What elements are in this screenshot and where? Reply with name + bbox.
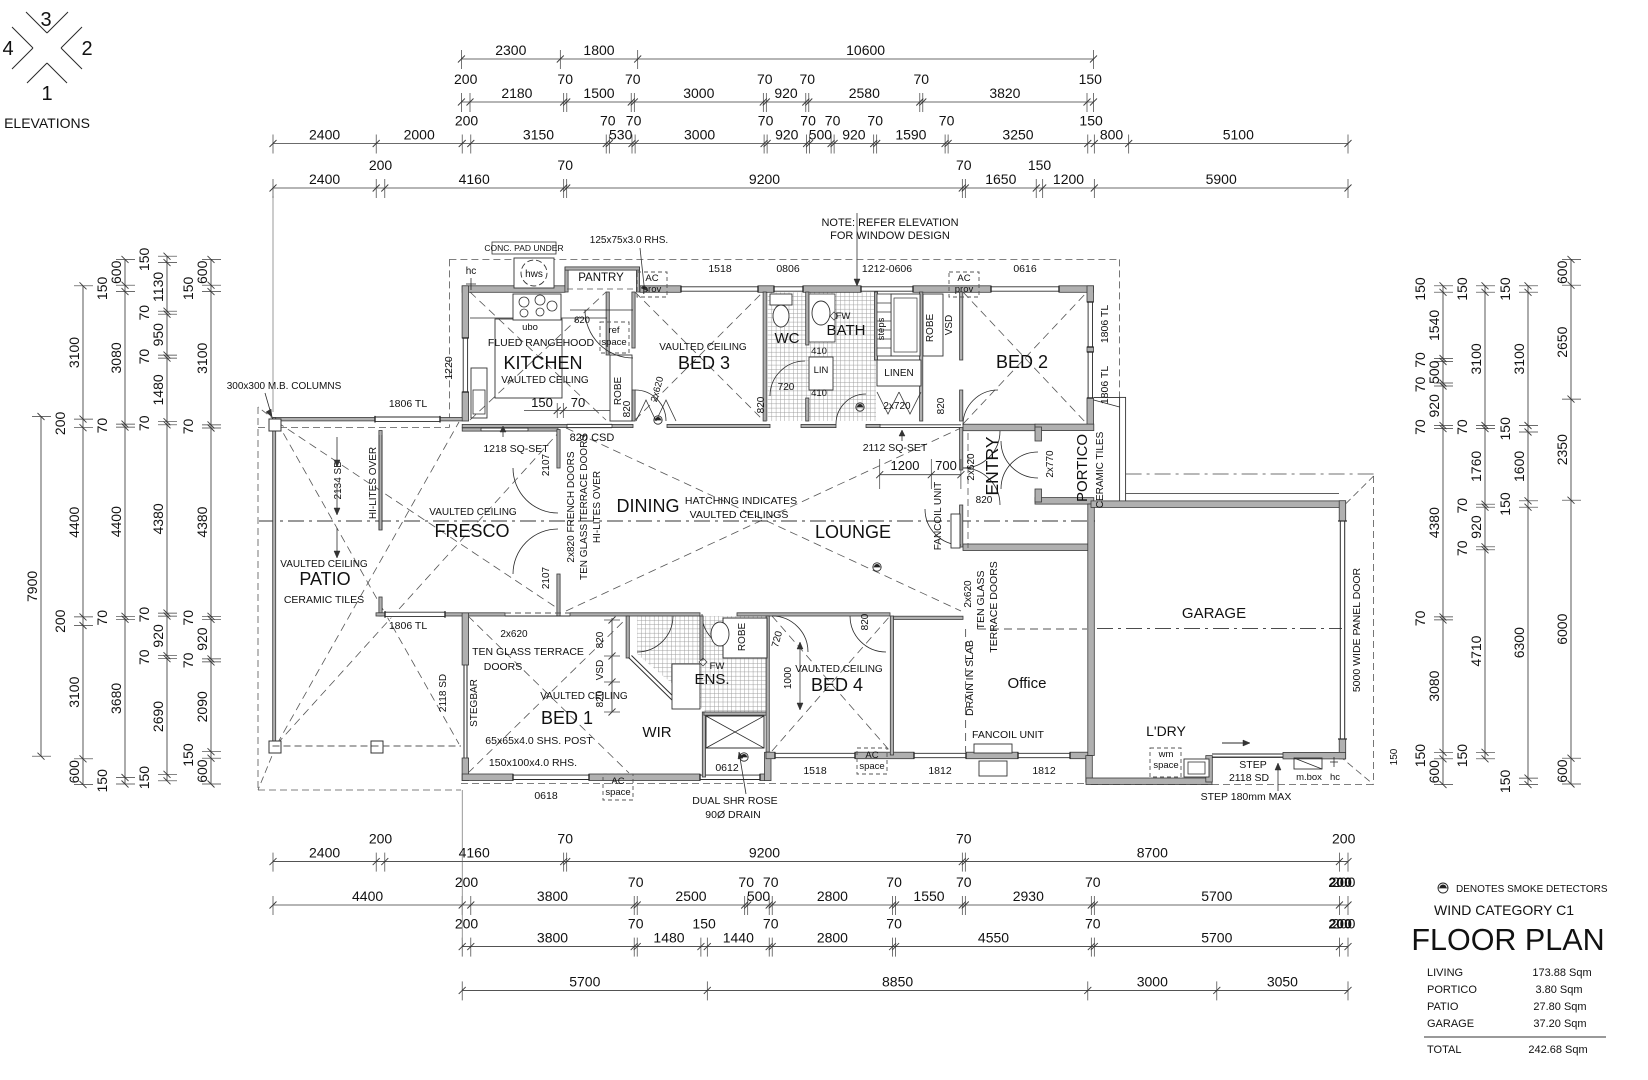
hi-lite window divider	[378, 435, 380, 530]
svg-text:4160: 4160	[459, 171, 490, 187]
vault X kitchen	[470, 292, 606, 420]
eave dashed outline left	[257, 407, 259, 790]
window 1812 bottom 1	[914, 752, 966, 759]
svg-text:1806 TL: 1806 TL	[1099, 366, 1111, 404]
entry opening dashed line	[967, 433, 969, 548]
window 0618	[513, 774, 589, 781]
svg-text:70: 70	[94, 610, 110, 626]
window 1806TL right 1	[1087, 302, 1094, 347]
svg-text:TEN GLASS: TEN GLASS	[975, 571, 987, 630]
svg-text:70: 70	[136, 607, 152, 623]
svg-text:200: 200	[369, 831, 393, 847]
svg-text:L'DRY: L'DRY	[1146, 723, 1186, 739]
right dim chain 1	[1412, 277, 1453, 788]
svg-text:FOR WINDOW DESIGN: FOR WINDOW DESIGN	[830, 230, 950, 242]
svg-text:FANCOIL UNIT: FANCOIL UNIT	[933, 482, 944, 551]
svg-text:VAULTED CEILING: VAULTED CEILING	[795, 664, 883, 675]
svg-text:2800: 2800	[817, 888, 848, 904]
svg-text:500: 500	[747, 888, 771, 904]
section line main	[259, 520, 1097, 522]
svg-text:70: 70	[557, 71, 573, 87]
svg-text:600: 600	[108, 260, 124, 284]
svg-text:PORTICO: PORTICO	[1427, 984, 1477, 996]
svg-text:STEP: STEP	[1239, 759, 1266, 771]
svg-text:TEN GLASS TERRACE DOORS: TEN GLASS TERRACE DOORS	[579, 434, 590, 580]
svg-text:HATCHING INDICATES: HATCHING INDICATES	[685, 495, 797, 507]
svg-text:GARAGE: GARAGE	[1182, 605, 1246, 622]
svg-text:6000: 6000	[1554, 613, 1570, 644]
svg-text:720: 720	[778, 382, 795, 393]
svg-text:200: 200	[1332, 831, 1356, 847]
svg-text:70: 70	[939, 113, 955, 129]
svg-text:1806 TL: 1806 TL	[389, 620, 427, 632]
lin closet	[809, 357, 833, 390]
svg-text:BATH: BATH	[827, 322, 866, 339]
svg-text:150: 150	[94, 769, 110, 793]
eave hip diagonal patio bottom-left	[258, 746, 276, 790]
wall top exterior seg2	[640, 286, 681, 293]
svg-text:70: 70	[956, 831, 972, 847]
svg-text:920: 920	[150, 624, 166, 648]
svg-text:65x65x4.0 SHS. POST: 65x65x4.0 SHS. POST	[485, 735, 593, 747]
wall top exterior seg4	[803, 286, 861, 293]
wc door arc	[770, 361, 805, 396]
svg-text:70: 70	[1412, 419, 1428, 435]
svg-text:70: 70	[136, 349, 152, 365]
svg-text:3680: 3680	[108, 683, 124, 714]
svg-text:2930: 2930	[1013, 888, 1044, 904]
svg-text:hws: hws	[525, 269, 543, 280]
left dim chain 4	[180, 256, 221, 788]
right dim chain 4	[1554, 256, 1581, 788]
svg-text:2134 SD: 2134 SD	[333, 461, 344, 500]
bed1 mini vdim 820-vsd-820	[611, 618, 613, 712]
wall top exterior seg6	[1059, 286, 1094, 293]
svg-text:820 CSD: 820 CSD	[570, 432, 615, 444]
svg-text:2690: 2690	[150, 701, 166, 732]
svg-text:3100: 3100	[194, 343, 210, 374]
svg-text:70: 70	[628, 916, 644, 932]
svg-text:2: 2	[81, 38, 92, 60]
svg-text:hc: hc	[1330, 772, 1340, 783]
svg-text:1590: 1590	[895, 127, 926, 143]
wall ens/bed4	[766, 616, 769, 752]
svg-text:9200: 9200	[749, 845, 780, 861]
svg-text:920: 920	[194, 627, 210, 651]
m.box	[1294, 758, 1322, 769]
fancoil office	[974, 744, 1012, 753]
svg-text:VAULTED CEILING: VAULTED CEILING	[280, 559, 368, 570]
eave hip diagonal garage bottom-right	[1339, 756, 1374, 785]
wall step bed1/bed4	[765, 752, 772, 780]
svg-text:150: 150	[136, 248, 152, 272]
svg-text:AC: AC	[957, 273, 970, 284]
svg-text:410: 410	[811, 346, 827, 357]
svg-text:3100: 3100	[66, 337, 82, 368]
svg-text:70: 70	[1454, 419, 1470, 435]
svg-text:WIR: WIR	[642, 724, 671, 741]
svg-text:150: 150	[1028, 157, 1052, 173]
wm space dashed box	[1150, 748, 1181, 777]
svg-text:200: 200	[369, 157, 393, 173]
kitchen bench line	[470, 317, 607, 319]
svg-text:70: 70	[1454, 498, 1470, 514]
svg-text:150: 150	[180, 277, 196, 301]
svg-text:200: 200	[455, 113, 479, 129]
svg-text:37.20 Sqm: 37.20 Sqm	[1533, 1018, 1586, 1030]
svg-text:200: 200	[1329, 916, 1353, 932]
svg-text:HI-LITES OVER: HI-LITES OVER	[368, 447, 379, 519]
wall bed1/wir	[626, 616, 629, 658]
laundry walls	[1086, 756, 1093, 782]
svg-text:70: 70	[136, 649, 152, 665]
laundry tub	[1184, 759, 1209, 777]
svg-text:DOORS: DOORS	[484, 661, 523, 673]
svg-text:920: 920	[774, 85, 798, 101]
svg-text:GARAGE: GARAGE	[1427, 1018, 1474, 1030]
svg-text:4380: 4380	[150, 503, 166, 534]
window 1812 bottom 2	[1018, 752, 1070, 759]
wall top exterior seg1	[462, 286, 565, 293]
svg-text:NOTE: REFER ELEVATION: NOTE: REFER ELEVATION	[821, 217, 958, 229]
window 1806TL right 2	[1087, 352, 1094, 398]
vault X bed1	[468, 616, 629, 773]
top dim row 3	[270, 113, 1352, 154]
bed1 terrace doors dashed	[505, 612, 570, 614]
svg-text:920: 920	[775, 127, 799, 143]
bath vanity counter	[809, 294, 835, 342]
svg-text:700: 700	[935, 458, 957, 473]
garage bottom wall	[1283, 752, 1346, 759]
svg-text:920: 920	[1426, 394, 1442, 418]
entry south wall	[894, 616, 963, 619]
svg-text:ELEVATIONS: ELEVATIONS	[4, 115, 90, 131]
svg-text:500: 500	[1426, 360, 1442, 384]
svg-text:70: 70	[626, 113, 642, 129]
svg-text:VAULTED CEILING: VAULTED CEILING	[540, 691, 628, 702]
svg-text:820: 820	[860, 613, 871, 630]
svg-text:200: 200	[454, 71, 478, 87]
AC space boxes	[603, 774, 633, 800]
svg-text:1760: 1760	[1468, 451, 1484, 482]
svg-text:space: space	[1153, 760, 1178, 771]
svg-text:2650: 2650	[1554, 326, 1570, 357]
svg-text:VAULTED CEILING: VAULTED CEILING	[659, 342, 747, 353]
svg-text:600: 600	[1554, 260, 1570, 284]
svg-text:2107: 2107	[541, 453, 552, 476]
svg-text:1800: 1800	[583, 42, 614, 58]
svg-text:1812: 1812	[928, 765, 952, 777]
svg-text:WIND CATEGORY C1: WIND CATEGORY C1	[1434, 902, 1574, 918]
wall bottom bed1	[462, 774, 513, 781]
svg-text:1220: 1220	[443, 356, 455, 380]
svg-text:2000: 2000	[404, 127, 435, 143]
AC prov boxes	[637, 272, 667, 297]
svg-text:PANTRY: PANTRY	[578, 272, 624, 284]
svg-text:90Ø DRAIN: 90Ø DRAIN	[705, 809, 760, 821]
svg-text:820: 820	[756, 396, 767, 413]
window 1806TL fresco top beam	[375, 416, 440, 423]
bottom dim row 4	[459, 973, 1352, 1000]
wall mid horizontal top band bottom	[462, 424, 567, 427]
wall left exterior lower	[462, 613, 469, 665]
pantry shelf	[570, 309, 633, 311]
eave hip diagonal patio top-left	[258, 407, 276, 421]
section line garage	[1097, 628, 1342, 630]
elevations marker	[2, 9, 92, 105]
svg-text:4400: 4400	[108, 506, 124, 537]
svg-text:3820: 3820	[989, 85, 1020, 101]
svg-text:prov: prov	[643, 284, 662, 295]
svg-text:3100: 3100	[1468, 343, 1484, 374]
door 820 CSD	[567, 423, 612, 425]
svg-text:5700: 5700	[1201, 888, 1232, 904]
bottom dim row 1	[270, 831, 1356, 872]
entry double door arcs	[963, 431, 1000, 468]
svg-text:1806 TL: 1806 TL	[1099, 305, 1111, 343]
lounge/entry wall	[960, 428, 963, 471]
total line	[1424, 1036, 1606, 1038]
wall right exterior bed2	[1087, 286, 1094, 302]
wall ens bottom	[704, 712, 767, 715]
svg-text:2300: 2300	[495, 42, 526, 58]
svg-text:70: 70	[1412, 610, 1428, 626]
lounge south wall	[963, 544, 1091, 551]
svg-text:KITCHEN: KITCHEN	[503, 353, 582, 373]
svg-text:70: 70	[886, 916, 902, 932]
svg-text:820: 820	[595, 690, 606, 707]
svg-text:1480: 1480	[653, 930, 684, 946]
svg-text:FRESCO: FRESCO	[434, 521, 509, 541]
svg-text:70: 70	[825, 113, 841, 129]
svg-text:1200: 1200	[1053, 171, 1084, 187]
svg-text:ROBE: ROBE	[737, 623, 748, 652]
svg-text:200: 200	[455, 874, 479, 890]
mini dim 1200-700	[880, 474, 961, 476]
svg-text:ref: ref	[608, 325, 619, 336]
svg-text:820: 820	[976, 495, 993, 506]
svg-text:steps: steps	[876, 317, 887, 340]
svg-text:BED 1: BED 1	[541, 708, 593, 728]
kitchen left cupboard	[471, 368, 487, 418]
mini dim 150-70 kitchen	[524, 410, 610, 412]
garage panel door	[1339, 521, 1341, 739]
wall linen/robe col	[920, 292, 923, 421]
fresco/patio divider	[379, 431, 382, 531]
svg-text:ENTRY: ENTRY	[982, 436, 1002, 495]
fw ens	[699, 658, 707, 666]
svg-text:VAULTED CEILING: VAULTED CEILING	[429, 507, 517, 518]
svg-text:3.80 Sqm: 3.80 Sqm	[1535, 984, 1582, 996]
robe ens box	[723, 618, 767, 658]
left dim chain 1	[52, 282, 93, 788]
eave dashed garage right	[1373, 476, 1375, 785]
svg-text:PORTICO: PORTICO	[1074, 434, 1091, 502]
portico top wall	[1035, 424, 1094, 431]
step arrow	[1222, 742, 1250, 744]
portico roof hip diagonal	[1090, 399, 1120, 407]
top dim row 4	[270, 157, 1352, 198]
tile hatch wc-bath	[768, 292, 877, 421]
svg-text:3000: 3000	[684, 127, 715, 143]
svg-text:2118 SD: 2118 SD	[438, 674, 449, 712]
svg-text:70: 70	[763, 916, 779, 932]
svg-text:TOTAL: TOTAL	[1427, 1044, 1461, 1056]
wall kitchen/pantry col	[606, 292, 609, 355]
svg-text:2350: 2350	[1554, 434, 1570, 465]
eave dashed top	[449, 258, 1119, 260]
svg-text:820: 820	[936, 397, 947, 414]
svg-text:3100: 3100	[1511, 343, 1527, 374]
hc mark	[1333, 757, 1335, 767]
svg-text:2118 SD: 2118 SD	[1229, 772, 1269, 784]
svg-text:1812: 1812	[1032, 765, 1056, 777]
svg-text:VSD: VSD	[595, 660, 606, 681]
svg-text:70: 70	[1085, 874, 1101, 890]
svg-text:ROBE: ROBE	[925, 314, 936, 343]
svg-text:wm: wm	[1158, 749, 1174, 760]
svg-text:70: 70	[94, 418, 110, 434]
svg-text:620: 620	[574, 315, 590, 326]
svg-text:70: 70	[1085, 916, 1101, 932]
svg-text:ROBE: ROBE	[613, 377, 624, 406]
svg-text:2x620: 2x620	[500, 629, 528, 640]
svg-text:70: 70	[180, 610, 196, 626]
svg-text:LIN: LIN	[814, 365, 829, 376]
svg-text:600: 600	[1554, 759, 1570, 783]
svg-text:150: 150	[136, 766, 152, 790]
svg-text:5100: 5100	[1223, 127, 1254, 143]
office top dashed opening	[978, 628, 1087, 630]
svg-text:70: 70	[763, 874, 779, 890]
svg-text:950: 950	[150, 323, 166, 347]
svg-text:LOUNGE: LOUNGE	[815, 522, 891, 542]
svg-text:7900: 7900	[24, 571, 40, 602]
extension guide patio left	[272, 196, 274, 412]
svg-text:1540: 1540	[1426, 310, 1442, 341]
svg-text:9200: 9200	[749, 171, 780, 187]
svg-text:3800: 3800	[537, 888, 568, 904]
svg-text:150: 150	[531, 395, 553, 410]
svg-text:70: 70	[914, 71, 930, 87]
steps strip	[877, 294, 891, 356]
svg-text:5900: 5900	[1206, 171, 1237, 187]
portico left wall stubs	[1035, 427, 1042, 441]
svg-text:4710: 4710	[1468, 635, 1484, 666]
svg-text:3150: 3150	[523, 127, 554, 143]
svg-text:2500: 2500	[675, 888, 706, 904]
svg-text:5000 WIDE PANEL DOOR: 5000 WIDE PANEL DOOR	[1351, 567, 1363, 692]
svg-text:800: 800	[1100, 127, 1124, 143]
bath tub	[891, 294, 920, 356]
svg-text:530: 530	[609, 127, 633, 143]
svg-text:DRAIN IN SLAB: DRAIN IN SLAB	[964, 640, 976, 716]
fresco top wall + sq-set	[462, 428, 481, 431]
svg-text:4380: 4380	[1426, 507, 1442, 538]
svg-text:1518: 1518	[803, 765, 827, 777]
svg-text:600: 600	[194, 260, 210, 284]
svg-text:DINING: DINING	[617, 496, 680, 516]
svg-text:242.68 Sqm: 242.68 Sqm	[1528, 1044, 1587, 1056]
svg-text:AC: AC	[865, 750, 878, 761]
svg-text:1000: 1000	[783, 666, 794, 689]
svg-text:2400: 2400	[309, 171, 340, 187]
svg-text:WC: WC	[775, 330, 800, 347]
svg-text:3080: 3080	[1426, 670, 1442, 701]
right dim chain 3	[1497, 277, 1538, 793]
left dim 7900	[24, 413, 51, 760]
svg-text:2x620: 2x620	[963, 580, 974, 608]
svg-text:BED 4: BED 4	[811, 675, 863, 695]
svg-text:Office: Office	[1008, 675, 1047, 692]
door 2118SD left wall	[463, 665, 465, 758]
wall wc/bath	[806, 292, 809, 345]
svg-text:DUAL SHR ROSE: DUAL SHR ROSE	[692, 795, 777, 807]
svg-text:70: 70	[557, 831, 573, 847]
svg-text:STEGBAR: STEGBAR	[469, 679, 480, 727]
svg-text:STEP 180mm MAX: STEP 180mm MAX	[1201, 791, 1292, 803]
svg-text:70: 70	[956, 157, 972, 173]
door bed3 arc	[635, 390, 666, 421]
svg-text:70: 70	[956, 874, 972, 890]
wall pantry col/bed3	[632, 292, 635, 348]
svg-text:2400: 2400	[309, 127, 340, 143]
svg-text:space: space	[605, 787, 630, 798]
shower box	[706, 716, 764, 748]
svg-text:125x75x3.0 RHS.: 125x75x3.0 RHS.	[590, 235, 668, 246]
svg-text:2112 SQ-SET: 2112 SQ-SET	[863, 442, 928, 454]
svg-text:200: 200	[455, 916, 479, 932]
svg-text:173.88 Sqm: 173.88 Sqm	[1532, 967, 1591, 979]
wall office right / garage left	[1088, 504, 1095, 756]
svg-text:3250: 3250	[1002, 127, 1033, 143]
svg-text:3050: 3050	[1267, 973, 1298, 989]
pantry door arc	[585, 310, 633, 358]
top dim row 1	[458, 42, 1097, 69]
svg-text:2090: 2090	[194, 691, 210, 722]
svg-text:AC: AC	[611, 776, 624, 787]
svg-text:CERAMIC TILES: CERAMIC TILES	[1095, 431, 1106, 508]
smoke detectors	[654, 416, 662, 424]
svg-text:4380: 4380	[194, 506, 210, 537]
svg-text:150: 150	[1497, 770, 1513, 794]
svg-text:0806: 0806	[776, 263, 800, 275]
vault X bed2	[963, 292, 1087, 424]
svg-text:200: 200	[52, 609, 68, 633]
svg-text:1200: 1200	[891, 458, 920, 473]
portico front door arcs 2x770	[1001, 441, 1038, 478]
window 0616 top	[991, 286, 1059, 293]
svg-text:1600: 1600	[1511, 451, 1527, 482]
svg-text:1806 TL: 1806 TL	[389, 398, 427, 410]
svg-text:150: 150	[1412, 277, 1428, 301]
eave dashed vertical kitchen left	[448, 259, 450, 427]
svg-text:70: 70	[571, 395, 585, 410]
svg-text:DENOTES SMOKE DETECTORS: DENOTES SMOKE DETECTORS	[1456, 884, 1608, 895]
svg-text:200: 200	[52, 412, 68, 436]
svg-text:1212-0606: 1212-0606	[862, 263, 912, 275]
wall robe/bed2	[960, 292, 963, 360]
eave dashed right upper	[1119, 259, 1121, 398]
svg-text:150x100x4.0 RHS.: 150x100x4.0 RHS.	[489, 757, 577, 769]
svg-text:2580: 2580	[849, 85, 880, 101]
svg-text:1440: 1440	[723, 930, 754, 946]
wall top exterior seg5	[913, 286, 991, 293]
svg-text:70: 70	[625, 71, 641, 87]
bed3 robe doors 2x620	[636, 400, 656, 421]
svg-text:1518: 1518	[708, 263, 732, 275]
svg-text:1480: 1480	[150, 374, 166, 405]
